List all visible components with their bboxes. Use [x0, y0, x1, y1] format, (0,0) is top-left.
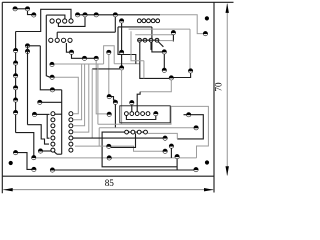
gray vertical x190 to pad — [189, 29, 191, 69]
pad F — [130, 100, 134, 104]
wire pad171 up-right to pad190 via corner — [174, 73, 191, 77]
trace pad V down-left — [177, 115, 203, 139]
connector A row1 pin2 — [56, 19, 60, 23]
diagonal A7 to corner — [54, 152, 57, 154]
dimension arrow up — [226, 3, 229, 13]
big gray loop trace — [98, 106, 208, 157]
stub row2 pin3 down to pad164 — [150, 42, 152, 50]
right row2 hole 3 — [149, 38, 153, 42]
box connector hole 4 — [141, 112, 145, 116]
pad chain x27 upper pad — [25, 44, 29, 48]
pad T — [50, 168, 54, 172]
pad V left stub — [184, 114, 187, 116]
gray stub y40.6 to lollipop stem — [160, 40, 174, 42]
box connector hole 3 — [135, 112, 139, 116]
connector B col-left pin4 — [51, 130, 55, 134]
pad with wire y102 — [38, 100, 42, 104]
gray trace y158 from pad G — [36, 157, 197, 159]
pad L on gray y158 — [107, 156, 111, 160]
U link hole1 to pad inside box — [126, 116, 155, 120]
pad 164/52 — [162, 50, 166, 54]
inner trace vertical x46 down to pad77 wire — [46, 15, 50, 77]
right row2 hole 1 — [138, 38, 142, 42]
left column pad 5 — [13, 98, 17, 102]
trace Q staircase — [28, 125, 50, 144]
bottom row2 hole 2 — [131, 130, 135, 134]
connector B col-right pin6 — [69, 142, 73, 146]
pad C — [32, 13, 36, 17]
stem pad96 down to pad W wire — [96, 61, 107, 114]
stub y154.2 to x61.7 — [57, 153, 62, 155]
connector A row1 pin1 — [50, 19, 54, 23]
connector B col-left pin7 — [51, 148, 55, 152]
connector B col-right pin3 — [69, 124, 73, 128]
pad D — [107, 94, 111, 98]
trace row1-c2 to pad85 — [58, 17, 85, 26]
connector A row2 pin3 — [62, 38, 66, 42]
right row1 hole 1 — [137, 19, 141, 23]
gray stem pad171 down to y91.5 — [140, 80, 171, 92]
stem x164 between pads — [163, 54, 165, 68]
knot inner gray leg down — [143, 61, 145, 79]
pad O — [169, 144, 173, 148]
bottom row2 hole 1 — [125, 130, 129, 134]
bundle line to B4 — [73, 64, 89, 132]
pad P-start — [32, 112, 36, 116]
board outline left edge — [1, 2, 3, 193]
pad 121/52 — [119, 50, 123, 54]
mounting hole bottom-right — [205, 160, 209, 164]
connector B col-right pin7 — [69, 148, 73, 152]
board outline bottom edge — [2, 175, 214, 177]
left column pad 2 — [13, 61, 17, 65]
trace B5 to pad M — [73, 137, 163, 139]
dimension line 85 horizontal — [3, 189, 213, 191]
trace y34.7 horizontal to lollipop stem — [135, 34, 173, 36]
wire y102 to x61.7 — [42, 101, 62, 103]
pad M — [163, 136, 167, 140]
connector A row2 pin1 — [49, 38, 53, 42]
pad Q — [175, 154, 179, 158]
trace L14 east from pad77 — [78, 14, 160, 16]
mounting hole top-right — [205, 16, 209, 20]
box connector hole 2 — [130, 112, 134, 116]
pad J — [38, 149, 42, 153]
long gray trace y64 left part — [54, 63, 103, 65]
trace pad K up to row2 line — [111, 133, 136, 147]
pad 164/70 — [162, 68, 166, 72]
connector A row1 pin4 — [69, 19, 73, 23]
lollipop pad 173/32 — [171, 30, 175, 34]
B6 line to pad P staircase — [75, 146, 163, 151]
pad on L14 no1 — [75, 13, 79, 17]
connector B col-right pin1 — [69, 112, 73, 116]
pad X — [194, 126, 198, 130]
box connector pad — [154, 111, 158, 115]
stub L32 down to connector row2 pin2 — [56, 32, 58, 38]
stem between pads x121 — [121, 23, 123, 50]
pad 52/77 — [50, 75, 54, 79]
inner trace top to row1 pin3 — [46, 15, 65, 19]
stem pad52 to pad68 — [121, 55, 123, 66]
knot left staircase to long64 — [118, 27, 136, 64]
trace y29.1 to gray descender x190 — [129, 28, 190, 30]
stem pad108 down to pad D — [108, 55, 110, 95]
lollipop stem — [172, 35, 174, 42]
connector A row2 pin4 — [68, 38, 72, 42]
trace L32 horizontal — [57, 31, 115, 33]
pad 71.5/52 — [69, 50, 73, 54]
dimension arrow right — [204, 188, 214, 191]
svg-text:70: 70 — [214, 82, 224, 92]
gray B6 riser — [98, 128, 100, 146]
wire pad27 to corner x40 — [28, 45, 41, 47]
pad 96.2/58 — [94, 56, 98, 60]
diagonal from row2 pin4 — [158, 42, 163, 47]
trace P branch down to A5 — [47, 114, 49, 138]
gray diagonal to row2 bottom — [146, 132, 149, 133]
connector B col-left pin3 — [51, 124, 55, 128]
pad A — [13, 7, 17, 11]
pad at right end of gray L14 — [203, 31, 207, 35]
connector A row2 pin2 — [55, 38, 59, 42]
C trace bottom connector — [102, 132, 177, 167]
dimension line 70 vertical — [226, 4, 228, 176]
gray trace x97.9 to big loop — [97, 64, 99, 124]
pad with stem to L32 — [113, 13, 117, 17]
left column pad 3 — [13, 74, 17, 78]
svg-text:85: 85 — [105, 178, 115, 188]
right row2 hole 4 — [155, 38, 159, 42]
trace from pad column top over connector box — [16, 9, 71, 31]
pad R — [194, 167, 198, 171]
pad 171/78 — [169, 76, 173, 80]
pad on L14 no3 — [94, 13, 98, 17]
pad on L14 no2 — [83, 13, 87, 17]
pad V right — [187, 113, 191, 117]
knot stair inner gray — [131, 31, 144, 61]
pad S — [32, 167, 36, 171]
stem pad E down — [114, 105, 116, 128]
gray bridge over pad 108.8 — [104, 46, 115, 64]
long gray trace y64 right part — [114, 63, 140, 65]
dimension arrow down — [226, 166, 229, 176]
right row1 hole 3 — [147, 19, 151, 23]
pad E — [113, 100, 117, 104]
trace L14 gray right portion — [160, 15, 203, 34]
pad 84.5/58 — [82, 56, 86, 60]
pad 121/21 — [119, 19, 123, 23]
trace P horizontal to A1 — [37, 113, 50, 115]
gray bundle line to B2 — [73, 64, 82, 120]
left column pad 1 — [13, 48, 17, 52]
stem from pad down to trace L32 — [114, 17, 116, 32]
stub A1 to x61.7 — [55, 113, 62, 115]
connector B col-left pin6 — [51, 142, 55, 146]
board outline right edge — [213, 2, 215, 192]
trace row2right-c1 down to pad171 — [140, 42, 169, 78]
connector B col-left pin2 — [51, 118, 55, 122]
right row2 hole 2 — [143, 38, 147, 42]
wire pad B elbow to pad C — [28, 10, 34, 14]
wire through row2 — [138, 39, 159, 41]
stem into box hole3 from y91.8 corner — [137, 92, 140, 112]
right row1 hole 5 — [156, 19, 160, 23]
pad K — [107, 144, 111, 148]
connector B col-right pin2 — [69, 118, 73, 122]
pad 190/71 — [188, 69, 192, 73]
stem pad Q down to bottom trace — [176, 159, 178, 170]
trace y26.9 top of knot — [118, 26, 152, 28]
board outline top edge — [2, 1, 233, 3]
wire pad A to pad B — [15, 8, 27, 10]
connector B col-left pin1 — [51, 112, 55, 116]
pad chain x27 lower pad — [25, 49, 29, 53]
wire through bottom row2 circles — [125, 131, 146, 133]
box connector hole 5 — [146, 112, 150, 116]
left column pad 4 — [13, 86, 17, 90]
gray line y127.8 to pad X — [99, 127, 194, 129]
stem pad F to box hole2 — [131, 105, 133, 112]
connector A row1 pin3 — [63, 19, 67, 23]
wire between x27 pads and down — [27, 46, 29, 125]
wire y151 pad J to A7 — [41, 150, 52, 152]
elbow pad71 down to y58 wire — [72, 54, 83, 58]
gray descender x121 to loop — [121, 70, 123, 124]
gray jog to row2line — [149, 133, 178, 139]
connector B col-left pin5 — [51, 136, 55, 140]
right row1 hole 4 — [151, 19, 155, 23]
box connector hole 1 — [125, 112, 129, 116]
dimension arrow left — [3, 188, 13, 191]
pad under bridge — [107, 50, 111, 54]
left column pad 6 — [13, 110, 17, 114]
bottom trace y170 — [52, 169, 196, 171]
trace from pad71 elbow — [66, 43, 69, 52]
bottom row2 hole 4 — [144, 130, 148, 134]
connector B col-right pin5 — [69, 136, 73, 140]
stem pad O down to gray y158 — [170, 148, 172, 158]
stub down x151.9 to pad chain — [152, 27, 162, 52]
pad 121/68 — [119, 66, 123, 70]
trace pad-W feed: x40 down to y89.8 — [40, 46, 61, 90]
gray trace pad77 to B1 — [54, 77, 78, 114]
elbow pad D to pad E — [111, 97, 115, 100]
connector box outline — [120, 106, 170, 123]
left pad column vertical trace — [15, 32, 17, 133]
mounting hole bottom-left — [9, 161, 13, 165]
wire y58.3 between pads — [82, 57, 98, 59]
left column jog to pad G — [16, 133, 34, 156]
pad P — [163, 149, 167, 153]
wire y68.9 to pad 121/68 — [92, 68, 119, 70]
pad I — [13, 150, 17, 154]
right row1 hole 2 — [142, 19, 146, 23]
pad start of long gray trace y64 — [50, 62, 54, 66]
vertical x61.7 down to connector — [61, 90, 63, 154]
pad B — [25, 7, 29, 11]
bundle line x90.8 down to B5 line — [91, 69, 93, 138]
bottom row2 hole 3 — [137, 130, 141, 134]
connector B col-right pin4 — [69, 130, 73, 134]
pad G — [32, 155, 36, 159]
bundle line to B3 — [73, 64, 85, 126]
trace pad I to pad S — [18, 153, 32, 170]
pad on y89.8 wire — [50, 88, 54, 92]
pad W — [107, 112, 111, 116]
